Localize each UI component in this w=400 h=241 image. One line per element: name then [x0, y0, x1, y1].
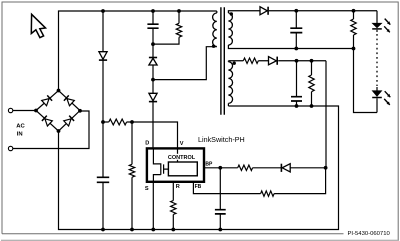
svg-text:D: D — [145, 141, 149, 147]
svg-text:BP: BP — [205, 161, 213, 167]
svg-text:V: V — [180, 141, 184, 147]
svg-text:FB: FB — [195, 184, 202, 190]
svg-text:IN: IN — [17, 132, 23, 138]
svg-text:CONTROL: CONTROL — [168, 155, 196, 161]
svg-text:PI-5430-060710: PI-5430-060710 — [348, 231, 391, 237]
svg-text:S: S — [145, 186, 149, 192]
svg-text:LinkSwitch-PH: LinkSwitch-PH — [198, 135, 245, 144]
svg-text:AC: AC — [16, 123, 25, 129]
svg-text:R: R — [176, 184, 180, 190]
